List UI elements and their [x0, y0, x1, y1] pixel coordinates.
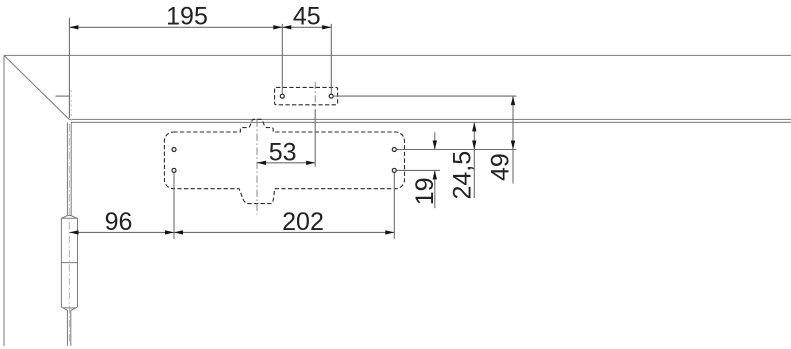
frame bottom edge line 1 — [69, 118, 791, 120]
ext line at plate right hole — [330, 24, 332, 94]
hinge axis centerline — [68, 124, 70, 344]
dim line 53 — [257, 162, 315, 164]
dim line 19 lower seg — [434, 170, 436, 208]
202 left — [174, 230, 183, 234]
arrowheads — [69, 25, 515, 235]
96 left — [70, 230, 79, 234]
arm plate centerline — [314, 82, 316, 110]
dim line 49 — [512, 96, 514, 184]
195 left — [69, 25, 78, 29]
extension + dimension thin lines — [56, 18, 517, 239]
ext line left hole column — [173, 173, 175, 239]
svg-text:96: 96 — [105, 208, 133, 236]
closer body dashed outline — [164, 119, 404, 203]
dim line 96 / 202 — [70, 231, 395, 233]
45 left — [282, 25, 291, 29]
ext line plate centre down to 53 — [314, 110, 316, 167]
frame left jamb outer edge — [3, 55, 5, 346]
53 right — [306, 161, 315, 165]
svg-text:49: 49 — [487, 153, 515, 181]
lower hole row line — [397, 169, 440, 171]
svg-text:24,5: 24,5 — [449, 151, 477, 200]
closer spindle axis centerline — [256, 120, 258, 215]
frame bottom edge line 2 — [71, 121, 791, 123]
hole height tick at hinge — [56, 95, 70, 97]
door leaf edge below hinge — [67, 311, 70, 346]
24,5 top — [472, 122, 476, 131]
96 right — [165, 230, 174, 234]
53 left — [257, 161, 266, 165]
dim line 19 upper seg — [434, 132, 436, 149]
49 bottom — [511, 141, 515, 150]
frame top edge — [4, 54, 791, 56]
door leaf edge above hinge — [67, 122, 71, 215]
45 right — [322, 25, 331, 29]
svg-text:202: 202 — [282, 208, 324, 236]
upper hole row line — [397, 149, 517, 151]
svg-text:45: 45 — [293, 3, 321, 31]
arm fixing plate dashed — [275, 87, 338, 104]
ext line right hole column — [393, 173, 395, 239]
ext line at plate left hole — [281, 24, 283, 94]
19 bottom (outside) — [433, 170, 437, 179]
svg-text:53: 53 — [269, 138, 297, 166]
195 right — [273, 25, 282, 29]
hidden leaf edge inside frame (faint dashes) — [70, 90, 72, 122]
ext line at hinge/frame corner — [68, 18, 70, 118]
19 top (outside) — [433, 141, 437, 150]
svg-text:195: 195 — [166, 3, 208, 31]
hole height line y96 — [334, 95, 516, 97]
screw holes — [172, 94, 396, 172]
dim line 24,5 — [473, 122, 475, 198]
svg-text:19: 19 — [411, 177, 439, 205]
49 top — [511, 96, 515, 105]
24,5 bottom — [472, 141, 476, 150]
hinge barrel — [61, 216, 77, 311]
dim line 195 / 45 — [69, 26, 331, 28]
frame miter diagonal — [4, 55, 69, 119]
202 right — [385, 230, 394, 234]
